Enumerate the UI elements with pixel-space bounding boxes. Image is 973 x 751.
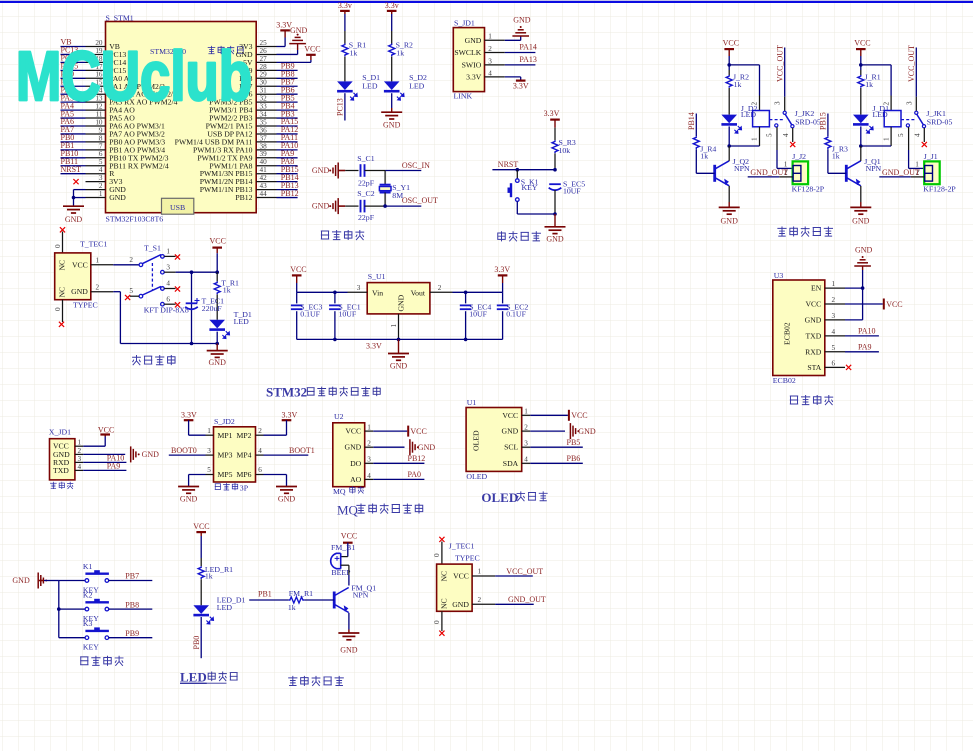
wire node to T_R1 — [216, 272, 218, 281]
svg-text:PA9: PA9 — [107, 462, 121, 471]
no-ERC marker — [175, 254, 180, 259]
svg-text:3: 3 — [207, 447, 211, 455]
resistor J_R2 — [726, 75, 732, 88]
wire net PB8 — [109, 600, 153, 609]
pin 17 (PC15) left stub — [86, 63, 127, 75]
caption STM32 minimal system — [266, 385, 380, 400]
wire net BOOT0 to pin3 — [169, 446, 214, 455]
S_U1 pin 2 stub — [430, 284, 453, 292]
svg-text:USB: USB — [170, 203, 185, 212]
svg-text:VCC: VCC — [290, 265, 306, 274]
pin 43 (PWM1/1N PB13) right stub — [200, 182, 277, 194]
collector wire — [728, 146, 730, 161]
svg-text:GND: GND — [852, 217, 870, 226]
svg-text:GND: GND — [312, 202, 330, 211]
wire net GND_OUT — [748, 168, 789, 177]
svg-text:4: 4 — [524, 456, 528, 464]
svg-text:4: 4 — [913, 133, 921, 137]
svg-text:VCC: VCC — [854, 39, 870, 48]
title LED lamp circuit LED灯电路 — [180, 670, 238, 685]
pin2 stub — [911, 176, 924, 178]
J_TEC1 pin names — [452, 572, 469, 609]
junction S_EC4 — [464, 291, 468, 295]
wire pin1 to switch — [113, 264, 139, 266]
svg-text:MP3: MP3 — [218, 451, 233, 460]
J_D1 labels — [873, 104, 890, 119]
wire buzzer pin2 to collector — [341, 565, 349, 585]
J_Q1 labels — [864, 157, 881, 173]
svg-text:22pF: 22pF — [358, 179, 375, 188]
svg-text:U1: U1 — [467, 398, 477, 407]
power bar — [292, 274, 302, 276]
pin 26 (GND) right stub — [236, 47, 277, 59]
svg-text:PB12: PB12 — [235, 193, 252, 202]
power port 3.3V right of S_JD2 — [282, 411, 298, 421]
S_C2 labels — [357, 189, 374, 222]
wire net PA12 — [277, 125, 299, 134]
pin 2 (GND) left stub — [86, 182, 127, 194]
svg-text:NPN: NPN — [734, 164, 750, 173]
pin4 stub + no-ERC — [792, 128, 794, 142]
svg-text:MCUclub: MCUclub — [16, 37, 252, 115]
wire S_C2 to crystal node — [365, 205, 386, 207]
S_JD1 pin 1 (GND) — [465, 33, 505, 45]
X_JD1 comment 下载口 — [50, 482, 73, 489]
svg-text:LINK: LINK — [454, 92, 473, 101]
wire pin5 to ground — [189, 466, 214, 486]
pin 9 (PA7 AO PWM3/2) left stub — [86, 126, 166, 138]
svg-text:PB11 RX PWM2/4: PB11 RX PWM2/4 — [109, 161, 169, 170]
svg-text:9: 9 — [99, 126, 103, 134]
svg-text:2: 2 — [524, 424, 528, 432]
capacitor S_EC5 — [549, 184, 562, 190]
J_TEC1 NC marks — [439, 571, 448, 609]
wire regulator gnd to ground — [398, 339, 400, 353]
wire net PA10 (U3 TXD) — [845, 327, 879, 336]
wire net PA1 — [61, 77, 86, 86]
svg-text:VCC: VCC — [502, 411, 518, 420]
X_JD1 pin 4 (TXD) — [53, 463, 83, 475]
wire pin6 to ground — [256, 466, 287, 486]
wire S_EC3 top lead — [296, 292, 298, 303]
junction EC4 bottom — [464, 338, 468, 342]
wire net PB14 — [277, 173, 299, 182]
svg-text:GND: GND — [546, 234, 564, 243]
pin 42 (PWM1/2N PB14) right stub — [200, 174, 277, 186]
pin2 stub — [779, 176, 792, 178]
svg-text:VCC: VCC — [345, 427, 361, 436]
junction VCC node — [859, 63, 863, 67]
svg-text:36: 36 — [260, 126, 268, 134]
wire net GND_OUT — [879, 168, 920, 177]
svg-text:NPN: NPN — [866, 164, 882, 173]
capacitor S_C1 — [361, 164, 365, 177]
svg-text:PA0: PA0 — [408, 470, 422, 479]
svg-text:5: 5 — [832, 344, 836, 352]
svg-text:NRST: NRST — [498, 160, 519, 169]
relay NC contact 5 — [906, 124, 909, 127]
svg-text:NC: NC — [439, 598, 448, 609]
wire pin27 to VCC — [277, 55, 311, 62]
svg-text:RXD: RXD — [805, 347, 822, 356]
pin 34 (PWM2/2 PB3) right stub — [209, 110, 276, 122]
svg-text:GND: GND — [383, 121, 401, 130]
svg-text:35: 35 — [260, 118, 268, 126]
svg-text:1: 1 — [99, 190, 103, 198]
coil pin 1 stub — [861, 127, 891, 146]
U3 pin 1 (EN) — [811, 280, 845, 293]
wire net PB12 — [277, 189, 299, 198]
svg-text:0.1UF: 0.1UF — [300, 309, 320, 318]
wire crystal bottom lead — [384, 193, 386, 207]
wire key bottom rail — [517, 201, 555, 214]
svg-text:LED: LED — [180, 670, 207, 685]
svg-text:4: 4 — [488, 69, 492, 77]
svg-text:31: 31 — [260, 87, 268, 95]
wire S_EC4 top lead — [465, 292, 467, 303]
power port 3.3V (down) at S_JD1 — [513, 81, 529, 91]
svg-text:PB9: PB9 — [125, 629, 139, 638]
power bar — [343, 542, 353, 544]
U2 pin 4 (AO) — [350, 472, 373, 484]
pin 40 (PWM1/1 PA8) right stub — [209, 158, 276, 170]
wire rail to K1 — [59, 580, 85, 582]
svg-text:NC: NC — [58, 260, 67, 271]
svg-text:T_TEC1: T_TEC1 — [80, 239, 107, 248]
svg-text:FM_B1: FM_B1 — [331, 543, 355, 552]
svg-text:GND: GND — [397, 294, 406, 311]
wire pin2 to bottom rail — [113, 292, 217, 344]
svg-text:22pF: 22pF — [358, 213, 375, 222]
wire net PA13 (SWIO) — [505, 55, 537, 65]
pin 32 (PWM3/2 PB5) right stub — [209, 95, 276, 107]
svg-text:GND: GND — [109, 193, 126, 202]
svg-text:0: 0 — [54, 307, 62, 311]
J_D2 labels — [741, 104, 758, 119]
svg-text:4: 4 — [166, 280, 170, 288]
svg-text:GND: GND — [721, 217, 739, 226]
S_JD1 pin 4 (3.3V) — [466, 69, 505, 81]
svg-text:2: 2 — [96, 283, 100, 291]
svg-text:LED: LED — [362, 82, 378, 91]
power port VCC LED lamp — [193, 522, 209, 532]
ground regulator — [388, 354, 409, 361]
svg-text:NC: NC — [58, 287, 67, 298]
wire 3.3V to pin1 — [189, 420, 214, 435]
power port 3.3V reset — [544, 109, 560, 119]
top rail right — [453, 291, 503, 293]
S_EC4 labels — [469, 302, 491, 318]
wire U1 pin2 to GND — [530, 430, 565, 432]
svg-text:1: 1 — [78, 439, 82, 447]
J_J1 labels — [923, 152, 956, 193]
wire 3.3V to S_R3 — [554, 120, 556, 141]
svg-text:3: 3 — [832, 312, 836, 320]
svg-text:2: 2 — [478, 596, 482, 604]
svg-text:J_J1: J_J1 — [924, 152, 938, 161]
svg-text:3: 3 — [488, 57, 492, 65]
wire T_R1 to T_D1 — [216, 294, 218, 319]
svg-text:TXD: TXD — [53, 466, 69, 475]
svg-text:39: 39 — [260, 150, 268, 158]
svg-text:3.3V: 3.3V — [366, 342, 382, 351]
svg-text:0: 0 — [54, 244, 62, 248]
T_D1 labels — [234, 310, 252, 326]
svg-text:GND: GND — [345, 443, 362, 452]
svg-text:SDA: SDA — [503, 459, 519, 468]
no-ERC marker — [175, 302, 180, 307]
svg-text:GND: GND — [855, 245, 873, 254]
resistor S_R3 — [552, 140, 558, 153]
S_Y1 labels — [392, 183, 410, 200]
svg-text:3.3V: 3.3V — [513, 82, 529, 91]
svg-text:BOOT1: BOOT1 — [289, 446, 315, 455]
pin 25 (3V3) right stub — [239, 39, 276, 51]
svg-text:41: 41 — [260, 166, 268, 174]
key switch K1 — [85, 574, 109, 583]
svg-text:PA9: PA9 — [858, 343, 872, 352]
IC U S_STM1 STM32F103C8T6 body — [106, 22, 257, 213]
power port VCC U1 — [569, 410, 588, 421]
power bar — [306, 54, 316, 56]
wire net PC14 — [61, 54, 86, 63]
pin 27 (5V) right stub — [243, 55, 276, 67]
svg-text:0: 0 — [433, 553, 441, 557]
svg-text:VCC_OUT: VCC_OUT — [775, 45, 784, 82]
wire net PA2 — [61, 85, 86, 94]
svg-text:10UF: 10UF — [469, 309, 487, 318]
relay armature — [785, 114, 792, 125]
pin 18 (PC14) left stub — [86, 55, 127, 67]
ground bars keys — [38, 573, 43, 589]
wire VCC node to coil top — [861, 65, 891, 111]
junction EN/gnd wire — [861, 286, 865, 290]
svg-text:27: 27 — [260, 55, 268, 63]
svg-text:VCC_OUT: VCC_OUT — [506, 567, 543, 576]
svg-text:ECB02: ECB02 — [773, 376, 796, 385]
ground bars S_C2 — [333, 198, 338, 214]
svg-text:29: 29 — [260, 71, 268, 79]
svg-text:GND: GND — [209, 358, 227, 367]
wire net PB15 (rotated) — [818, 112, 828, 136]
pin 12 (PA4 AO) left stub — [86, 103, 136, 115]
pin 8 (PB0 AO PWM3/3) left stub — [86, 134, 166, 146]
K1 labels — [83, 562, 99, 595]
svg-text:2: 2 — [488, 45, 492, 53]
wire net PB7 — [109, 572, 153, 581]
wire net PB12 (DO) — [373, 454, 425, 463]
J_TEC1 top stub — [433, 542, 442, 565]
capacitor S_EC2 0.1UF — [497, 305, 509, 309]
wire J_R3 to base — [828, 149, 846, 173]
ground port above U3 — [854, 260, 871, 266]
wire S_EC5 to rail — [554, 190, 556, 214]
svg-text:VCC: VCC — [341, 531, 357, 540]
J_R2 labels — [733, 72, 749, 89]
svg-text:TXD: TXD — [805, 332, 821, 341]
wire LED_R1 to LED_D1 — [200, 579, 202, 605]
wire net PA0 — [61, 70, 86, 79]
svg-text:1: 1 — [524, 408, 528, 416]
svg-text:1: 1 — [166, 248, 170, 256]
sheet top border line — [0, 1, 973, 3]
ground buzzer — [338, 633, 359, 640]
svg-text:SRD-05: SRD-05 — [795, 117, 821, 126]
svg-text:NPN: NPN — [353, 590, 369, 599]
S_JD2 comment 跳线帽3P — [215, 483, 249, 493]
U2 pin 3 (DO) — [350, 456, 373, 468]
power bar — [196, 531, 206, 533]
wire S_D2 cathode to ground — [391, 93, 393, 112]
crystal S_Y1 — [379, 185, 391, 193]
svg-text:LED: LED — [741, 110, 757, 119]
wire S_JD1 pin4 to 3.3V — [505, 77, 521, 80]
pin 30 (PB7) right stub — [239, 79, 276, 91]
wire net NRST — [492, 160, 555, 170]
wire net PB5 (SCL) — [530, 438, 583, 447]
wire net BOOT1 to pin4 — [256, 446, 315, 455]
wire net PB1 — [61, 141, 86, 150]
cap branch wire — [191, 272, 193, 343]
svg-text:5: 5 — [129, 287, 133, 295]
U1 pin 2 (GND) — [502, 424, 531, 436]
svg-text:MP2: MP2 — [237, 431, 252, 440]
svg-text:U3: U3 — [774, 271, 784, 280]
wire gnd to rail — [39, 581, 59, 638]
svg-text:2: 2 — [129, 256, 133, 264]
wire net PB4 — [277, 101, 298, 110]
power bar — [856, 48, 866, 50]
svg-text:LED: LED — [873, 110, 889, 119]
wire net PA3 — [61, 93, 86, 102]
wire net PC15 — [61, 62, 86, 71]
svg-text:GND: GND — [65, 215, 83, 224]
wire S_R2 to S_D2 — [391, 57, 393, 82]
power port VCC regulator — [290, 265, 306, 275]
no-ERC marker — [175, 286, 180, 291]
junction rail/gnd — [553, 212, 557, 216]
ground port above S_JD1 pin1 — [512, 30, 529, 36]
ground power circuit — [207, 351, 228, 358]
title key circuit 按键电路 — [80, 656, 123, 666]
svg-text:2: 2 — [367, 440, 371, 448]
wire net PB13 — [277, 181, 299, 190]
svg-text:GND_OUT: GND_OUT — [882, 168, 920, 177]
ground below transistor — [719, 207, 740, 214]
svg-text:1k: 1k — [223, 286, 231, 295]
power bar — [184, 419, 194, 421]
junction VCC branch — [215, 270, 219, 274]
wire net VB — [61, 38, 86, 47]
svg-text:LED: LED — [217, 603, 233, 612]
key switch S_K1 — [511, 179, 519, 202]
svg-text:3P: 3P — [240, 484, 249, 493]
pin 31 (PB6) right stub — [239, 87, 276, 99]
svg-text:S_U1: S_U1 — [368, 272, 386, 281]
wire S_JD1 pin1 to GND — [505, 36, 521, 40]
svg-text:K3: K3 — [83, 619, 93, 628]
wire rail to K3 — [59, 637, 85, 639]
svg-text:U2: U2 — [334, 412, 344, 421]
svg-text:OLED: OLED — [481, 490, 518, 505]
svg-text:3: 3 — [78, 455, 82, 463]
svg-text:8: 8 — [99, 134, 103, 142]
svg-text:38: 38 — [260, 142, 268, 150]
wire net PB9 — [277, 62, 298, 71]
svg-text:ECB02: ECB02 — [783, 322, 792, 345]
svg-text:8M: 8M — [392, 191, 403, 200]
svg-text:PA13: PA13 — [519, 55, 537, 64]
title bluetooth module 蓝牙模块 — [790, 395, 833, 405]
wire net PA7 — [61, 125, 86, 134]
power bar — [340, 10, 350, 12]
T_TEC1 top stub — [54, 232, 63, 253]
LED J_D2 — [721, 115, 741, 134]
wire net PA0 (AO) — [373, 470, 424, 479]
svg-text:VCC: VCC — [210, 236, 226, 245]
svg-text:3: 3 — [524, 440, 528, 448]
pin 15 (PA1 AO PWM2/2) left stub — [86, 79, 166, 91]
svg-text:3: 3 — [367, 456, 371, 464]
svg-text:OSC_IN: OSC_IN — [402, 161, 430, 170]
power bar — [550, 118, 560, 120]
svg-text:1k: 1k — [865, 80, 873, 89]
LED_R1 labels — [205, 565, 233, 581]
svg-text:GND: GND — [502, 427, 519, 436]
svg-text:PB7: PB7 — [125, 572, 139, 581]
wire net PB14 (rotated) — [687, 112, 697, 136]
wire net PB8 — [277, 70, 298, 79]
S_K1 labels — [521, 177, 539, 192]
svg-text:3: 3 — [99, 174, 103, 182]
svg-text:PB14: PB14 — [687, 112, 696, 130]
svg-text:PB12: PB12 — [281, 189, 299, 198]
LED T_D1 — [209, 320, 229, 339]
pin 39 (PWM1/2 TX PA9) right stub — [197, 150, 276, 162]
wire net PB6 — [277, 85, 298, 94]
relay actuation dashed link — [901, 119, 916, 121]
ground port (pin26) — [289, 37, 306, 43]
T_R1 labels — [221, 279, 239, 295]
terminal block J_J1 — [924, 161, 940, 184]
wire crystal top lead — [384, 171, 386, 185]
power port 3.3V (pin25) — [276, 20, 292, 30]
wire VCC to node — [216, 248, 218, 273]
svg-text:GND: GND — [290, 26, 308, 35]
wire U3 pin2 to VCC — [845, 303, 883, 305]
J_TEC1 pin1 stub — [472, 568, 495, 576]
pin 1 (GND) left stub — [86, 190, 127, 202]
svg-text:PB1: PB1 — [258, 590, 272, 599]
LED S_D2 — [384, 81, 404, 100]
pin 16 (PA0 AO) left stub — [86, 71, 136, 83]
wire X_JD1 pin2 to GND — [83, 453, 125, 455]
svg-text:1k: 1k — [350, 48, 358, 57]
svg-text:Vout: Vout — [411, 288, 426, 297]
connector X_JD1 body — [50, 439, 75, 480]
wire J_R4 to base — [696, 149, 714, 173]
svg-text:GND: GND — [312, 166, 330, 175]
resistor S_R1 — [342, 44, 348, 57]
svg-text:VCC: VCC — [193, 522, 209, 531]
wire net PA10 — [277, 141, 299, 150]
svg-text:OLED: OLED — [472, 430, 481, 451]
LED LED_D1 — [193, 605, 213, 624]
svg-text:GND: GND — [12, 576, 30, 585]
pin 20 (VB) left stub — [86, 39, 120, 51]
svg-text:PB5: PB5 — [567, 438, 581, 447]
svg-text:PB12: PB12 — [408, 454, 426, 463]
